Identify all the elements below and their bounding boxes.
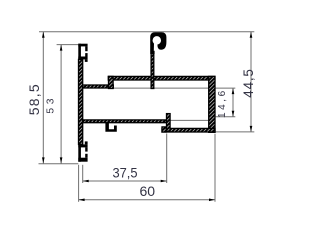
svg-text:37,5: 37,5 — [112, 165, 137, 181]
svg-text:44,5: 44,5 — [241, 68, 256, 97]
svg-text:53: 53 — [46, 95, 57, 114]
svg-text:60: 60 — [140, 183, 156, 199]
svg-text:14,6: 14,6 — [217, 88, 228, 118]
svg-text:58,5: 58,5 — [26, 83, 42, 115]
